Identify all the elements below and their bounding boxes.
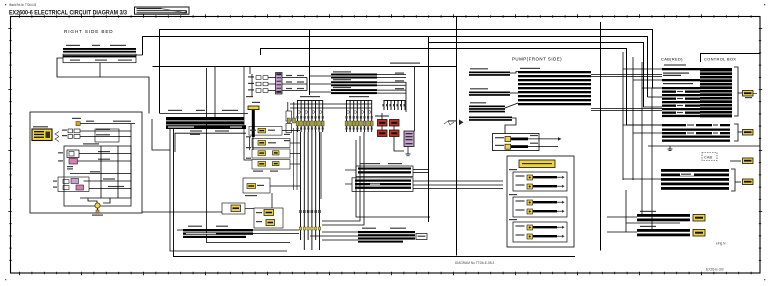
- svg-text:Hitachi Ref.No. TTD6-6-08: Hitachi Ref.No. TTD6-6-08: [9, 3, 36, 7]
- svg-text:PUMP(FRONT SIDE): PUMP(FRONT SIDE): [512, 56, 562, 61]
- svg-text:CONTROL BOX: CONTROL BOX: [704, 56, 736, 61]
- svg-text:CAB: CAB: [704, 155, 713, 160]
- svg-text:EX26-E-3/3: EX26-E-3/3: [706, 268, 724, 272]
- svg-text:eFig.N: eFig.N: [716, 242, 726, 246]
- svg-text:DIAGRAM No.TTD6-E-08-3: DIAGRAM No.TTD6-E-08-3: [455, 261, 495, 265]
- svg-text:RIGHT SIDE BED: RIGHT SIDE BED: [64, 29, 114, 34]
- svg-text:CAB(RED): CAB(RED): [661, 56, 683, 61]
- svg-text:EX2600-6 ELECTRICAL CIRCUIT DI: EX2600-6 ELECTRICAL CIRCUIT DIAGRAM 3/3: [9, 9, 127, 16]
